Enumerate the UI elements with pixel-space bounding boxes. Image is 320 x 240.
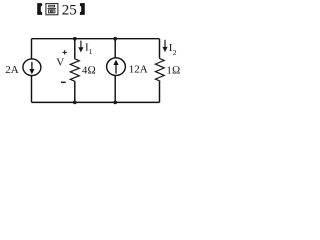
svg-text:2A: 2A (5, 64, 18, 76)
svg-text:25: 25 (62, 3, 77, 19)
svg-text:12A: 12A (129, 64, 148, 76)
svg-text:1: 1 (89, 47, 93, 56)
svg-text:2: 2 (173, 48, 177, 57)
svg-text:1Ω: 1Ω (166, 64, 180, 76)
svg-text:4Ω: 4Ω (82, 64, 96, 76)
svg-text:V: V (56, 56, 64, 68)
